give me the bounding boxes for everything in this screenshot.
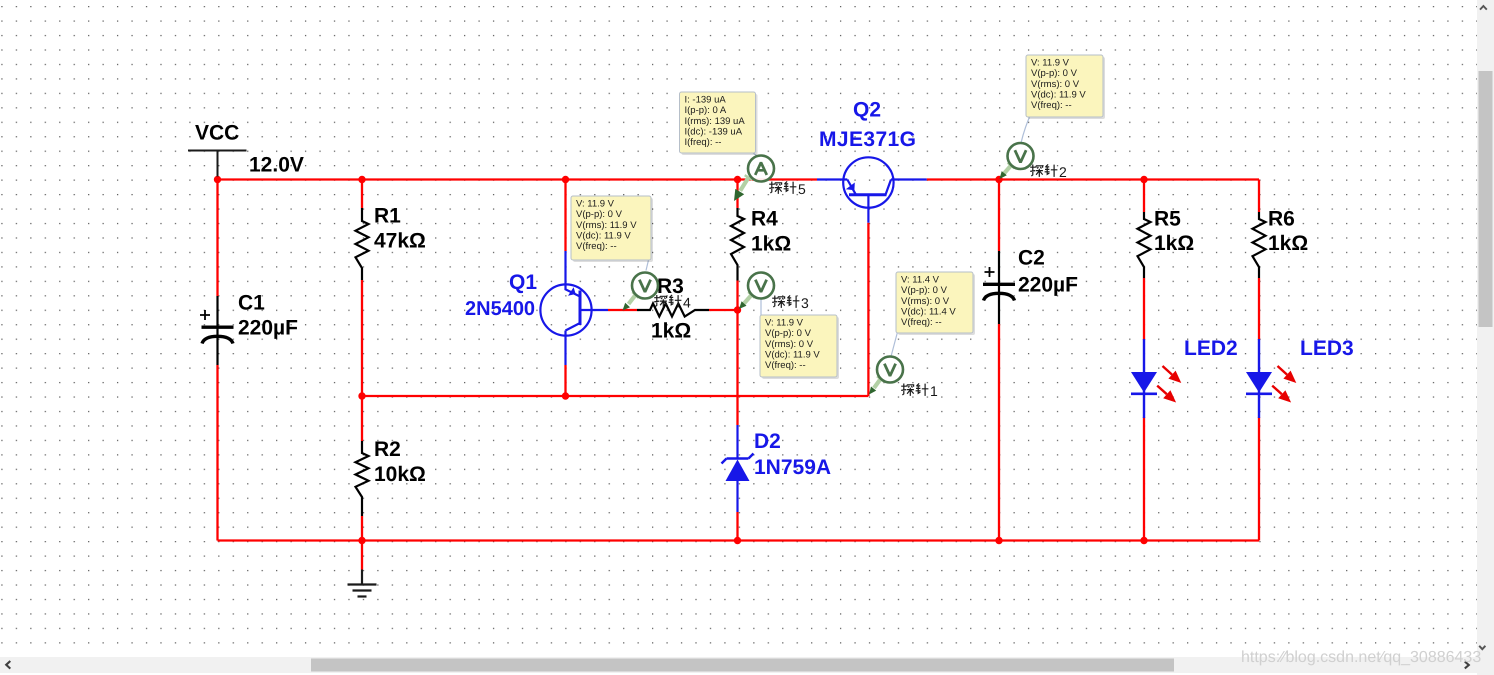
junction at (999,540.5) — [995, 537, 1002, 544]
svg-text:R6: R6 — [1268, 207, 1295, 230]
svg-text:V(freq): --: V(freq): -- — [1031, 100, 1072, 111]
svg-text:V(rms): 11.9 V: V(rms): 11.9 V — [576, 220, 637, 231]
label 探针4 — [654, 295, 681, 308]
current probe A (探针5) — [740, 178, 748, 191]
svg-text:D2: D2 — [754, 430, 781, 453]
junction at (737.5,540.5) — [734, 537, 741, 544]
wire R6 top lead — [1258, 180, 1260, 213]
wire top rail right — [927, 178, 1259, 180]
wire R3 to node — [709, 309, 738, 311]
svg-text:I(dc): -139 uA: I(dc): -139 uA — [685, 127, 743, 138]
svg-text:R3: R3 — [657, 275, 684, 298]
wire R4 top lead to top rail — [736, 180, 738, 209]
transistor Q1 (PNP 2N5400) — [540, 251, 608, 365]
wire mid rail (emitter net) — [362, 395, 868, 397]
junction at (1144,540.5) — [1140, 537, 1147, 544]
horizontal scrollbar arrows — [6, 661, 10, 669]
svg-text:MJE371G: MJE371G — [819, 128, 916, 151]
svg-text:220µF: 220µF — [238, 316, 298, 339]
resistor R6 — [1253, 212, 1266, 278]
wire bottom rail — [218, 539, 1260, 541]
wire R6 to LED3 — [1258, 278, 1260, 340]
wire R5 to LED2 — [1143, 278, 1145, 340]
probe info box (探针3) — [762, 317, 839, 379]
junction at (999,179.5) — [995, 176, 1002, 183]
svg-text:V(dc): 11.9 V: V(dc): 11.9 V — [576, 231, 631, 242]
vertical scrollbar — [1477, 0, 1494, 657]
svg-text:R1: R1 — [374, 204, 401, 227]
svg-text:Q2: Q2 — [853, 99, 881, 122]
wire Q1 base to R3 — [608, 309, 637, 311]
svg-text:V(rms): 0 V: V(rms): 0 V — [765, 339, 814, 350]
svg-text:V(dc): 11.9 V: V(dc): 11.9 V — [765, 350, 820, 361]
svg-text:C2: C2 — [1018, 246, 1045, 269]
probe connector lines — [646, 117, 1030, 357]
wire D2 to bottom rail — [736, 512, 738, 541]
probe info box (探针4) — [573, 198, 653, 262]
svg-text:V(freq): --: V(freq): -- — [901, 317, 942, 328]
junction at (362,540.5) — [358, 537, 365, 544]
wire R2 to bottom rail — [361, 516, 363, 541]
resistor R4 — [731, 208, 744, 281]
svg-text:1kΩ: 1kΩ — [751, 233, 791, 256]
wire Q1 emitter down to mid rail — [564, 365, 566, 396]
svg-text:1kΩ: 1kΩ — [651, 320, 691, 343]
capacitor C2 — [983, 251, 1015, 324]
svg-text:I: -139 uA: I: -139 uA — [685, 94, 727, 105]
wire left vertical (C1 to bottom rail) — [216, 365, 218, 541]
label 探针2 — [1030, 164, 1057, 177]
wire R1 bottom to mid rail — [361, 280, 363, 396]
svg-text:V: 11.9 V: V: 11.9 V — [765, 317, 804, 328]
svg-text:V(p-p): 0 V: V(p-p): 0 V — [576, 209, 623, 220]
svg-text:12.0V: 12.0V — [249, 153, 304, 176]
vertical scrollbar up arrow — [1480, 6, 1487, 10]
wire LED2 to bottom rail — [1143, 417, 1145, 541]
junction at (1144,179.5) — [1140, 176, 1147, 183]
svg-text:LED2: LED2 — [1184, 337, 1238, 360]
junction at (362,396) — [358, 392, 365, 399]
wire node down to D2 — [736, 310, 738, 425]
svg-text:2: 2 — [1059, 164, 1067, 180]
svg-text:R4: R4 — [751, 208, 778, 231]
svg-text:47kΩ: 47kΩ — [374, 229, 426, 252]
wire Q2 base down to mid rail corner — [867, 223, 869, 396]
svg-text:V(rms): 0 V: V(rms): 0 V — [1031, 79, 1080, 90]
svg-text:C1: C1 — [238, 291, 265, 314]
capacitor C1 — [200, 296, 234, 365]
wire R5 top lead — [1143, 180, 1145, 213]
svg-text:V(p-p): 0 V: V(p-p): 0 V — [765, 328, 812, 339]
voltage probe 探针1 — [874, 379, 881, 388]
svg-text:220µF: 220µF — [1018, 273, 1078, 296]
transistor Q2 (PNP MJE371G) — [817, 157, 927, 222]
resistor R3 — [637, 304, 709, 317]
label 探针3 — [772, 295, 799, 308]
probe info box (探针5 current) — [682, 94, 758, 155]
svg-text:10kΩ: 10kΩ — [374, 463, 426, 486]
resistor R5 — [1138, 212, 1151, 278]
voltage probe 探针2 — [1004, 166, 1011, 174]
svg-text:1kΩ: 1kΩ — [1154, 232, 1194, 255]
svg-text:https:∕∕blog.csdn.net∕qq_30886: https:∕∕blog.csdn.net∕qq_30886433 — [1241, 649, 1481, 666]
wire R4 bottom to node — [736, 281, 738, 311]
svg-text:LED3: LED3 — [1300, 337, 1354, 360]
wire ground stub — [361, 541, 363, 570]
junction at (737.5,310) — [734, 306, 741, 313]
label 探针5 — [769, 181, 796, 194]
svg-text:R5: R5 — [1154, 207, 1181, 230]
svg-text:5: 5 — [798, 181, 806, 197]
wire Q1 collector up to top rail — [564, 180, 566, 252]
svg-text:I(p-p): 0 A: I(p-p): 0 A — [685, 105, 727, 116]
svg-text:Q1: Q1 — [509, 271, 537, 294]
svg-text:V(rms): 0 V: V(rms): 0 V — [901, 296, 950, 307]
horizontal scrollbar thumb — [311, 659, 1174, 672]
svg-text:V(p-p): 0 V: V(p-p): 0 V — [1031, 68, 1078, 79]
svg-text:1N759A: 1N759A — [754, 456, 831, 479]
svg-text:I(freq): --: I(freq): -- — [685, 137, 722, 148]
resistor R2 — [356, 441, 369, 516]
junction at (565.5,179.5) — [562, 176, 569, 183]
svg-text:R2: R2 — [374, 438, 401, 461]
svg-text:2N5400: 2N5400 — [465, 298, 535, 320]
horizontal scrollbar — [0, 657, 1477, 673]
wire C2 top lead from top rail — [998, 180, 1000, 252]
wire mid rail to R2 — [361, 396, 363, 441]
svg-text:V(dc): 11.9 V: V(dc): 11.9 V — [1031, 90, 1086, 101]
wire C2 bottom to bottom rail — [998, 324, 1000, 541]
svg-text:V(freq): --: V(freq): -- — [765, 360, 806, 371]
resistor R1 — [356, 208, 369, 280]
svg-text:V: 11.9 V: V: 11.9 V — [1031, 57, 1070, 68]
LED3 — [1258, 339, 1260, 418]
junction at (362,179.5) — [358, 176, 365, 183]
svg-text:I(rms): 139 uA: I(rms): 139 uA — [685, 116, 746, 127]
svg-text:V(freq): --: V(freq): -- — [576, 241, 617, 252]
LED2 — [1143, 339, 1145, 418]
vertical scrollbar thumb — [1479, 71, 1493, 327]
svg-text:1kΩ: 1kΩ — [1268, 232, 1308, 255]
svg-text:1: 1 — [930, 383, 938, 399]
svg-text:VCC: VCC — [195, 122, 239, 145]
svg-text:4: 4 — [683, 295, 691, 311]
svg-text:3: 3 — [801, 295, 809, 311]
zener diode D2 (1N759A) — [722, 425, 754, 512]
probe info box (探针1) — [898, 274, 975, 335]
svg-text:V(p-p): 0 V: V(p-p): 0 V — [901, 285, 948, 296]
junction at (217.5,179.5) — [214, 176, 221, 183]
power symbol VCC — [188, 151, 247, 177]
voltage probe 探针3 — [744, 295, 752, 304]
svg-text:V(dc): 11.4 V: V(dc): 11.4 V — [901, 307, 956, 318]
vertical scrollbar down arrow — [1479, 646, 1485, 649]
wire LED3 to bottom rail — [1258, 417, 1260, 541]
probe info box (探针2) — [1028, 57, 1105, 119]
wire R1 top lead — [361, 180, 363, 209]
label 探针1 — [901, 383, 928, 396]
svg-text:V: 11.4 V: V: 11.4 V — [901, 274, 940, 285]
svg-text:V: 11.9 V: V: 11.9 V — [576, 198, 615, 209]
ground — [348, 570, 377, 597]
wire left vertical (VCC to C1) — [216, 180, 218, 297]
junction at (565.5,396) — [562, 392, 569, 399]
wire top rail left (12V) — [218, 178, 818, 180]
voltage probe 探针4 — [629, 295, 636, 304]
junction at (737.5,179.5) — [734, 176, 741, 183]
